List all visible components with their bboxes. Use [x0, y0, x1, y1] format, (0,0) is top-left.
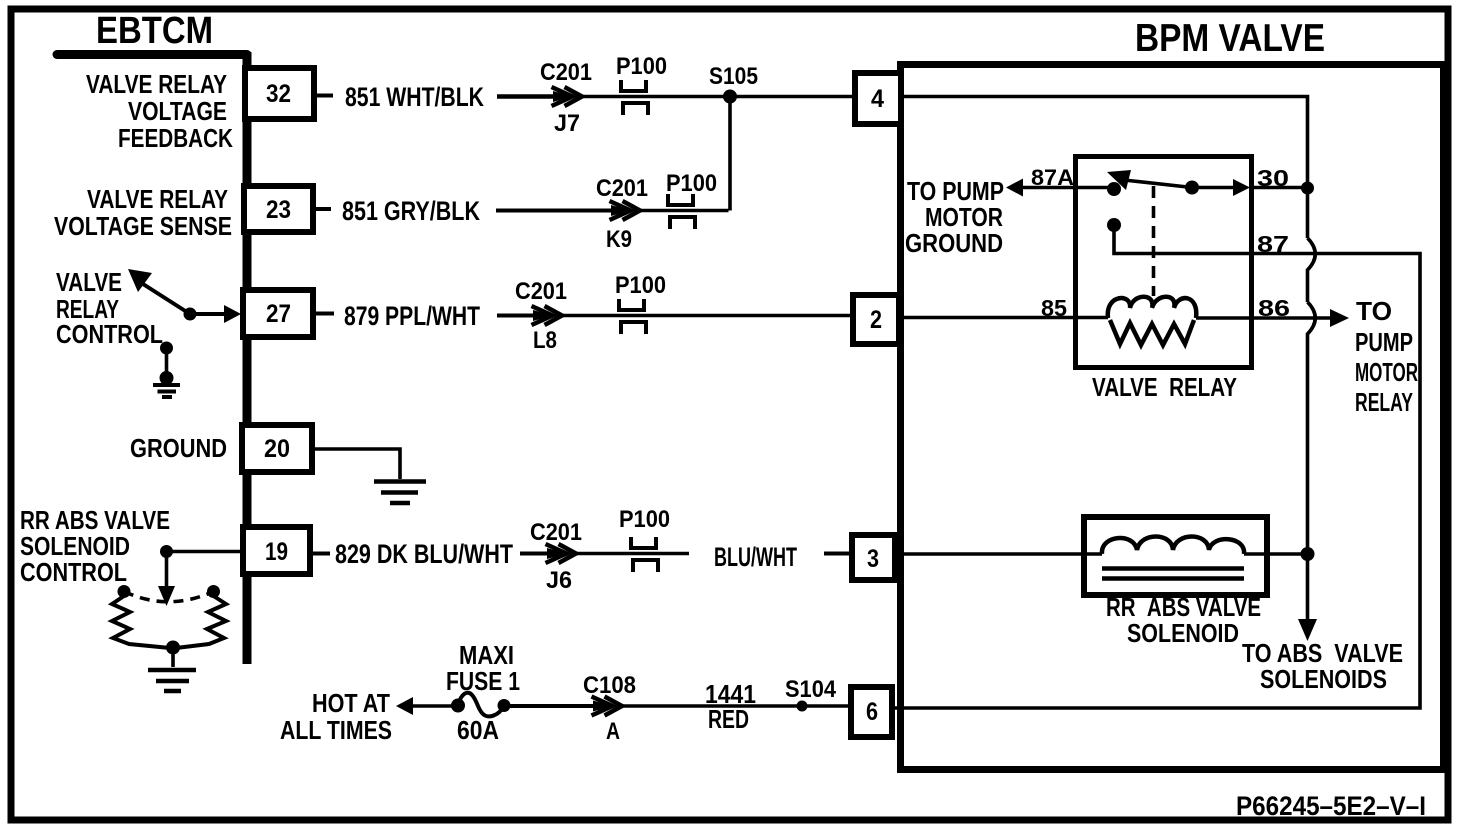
- svg-text:CONTROL: CONTROL: [56, 319, 163, 349]
- svg-text:829 DK BLU/WHT: 829 DK BLU/WHT: [335, 539, 513, 569]
- svg-text:4: 4: [871, 85, 884, 113]
- svg-text:VOLTAGE: VOLTAGE: [128, 96, 227, 126]
- svg-text:GROUND: GROUND: [130, 433, 227, 463]
- connector P100 (row 32): [621, 80, 648, 115]
- svg-text:C201: C201: [596, 175, 648, 202]
- wire 1441 RED to pin 6: [620, 704, 851, 707]
- vertical feed wire with hops: [1308, 188, 1316, 620]
- wire 829 DK BLU/WHT from C201: [574, 552, 689, 555]
- wire 851 WHT/BLK from C201 to pin 4: [580, 95, 852, 98]
- connector C201 J7 (row 32): [552, 87, 583, 106]
- ground (solenoid control): [148, 670, 196, 691]
- EBTCM module boundary: [57, 52, 247, 664]
- fuse MAXI FUSE 1 60A: [451, 693, 511, 717]
- svg-text:851 GRY/BLK: 851 GRY/BLK: [342, 196, 480, 226]
- splice S105: [723, 90, 737, 104]
- relay switch blade: [1124, 180, 1192, 188]
- svg-text:TO: TO: [1356, 296, 1392, 326]
- svg-text:K9: K9: [606, 226, 632, 253]
- relay coil link (dashed): [1152, 186, 1156, 296]
- wire 87A: [1021, 186, 1073, 190]
- wire stub from pin 23: [316, 207, 331, 211]
- arrow hot feed: [396, 697, 413, 715]
- relay contact 87 terminal: [1107, 218, 1121, 232]
- svg-text:P100: P100: [616, 53, 667, 80]
- svg-text:C201: C201: [540, 59, 592, 86]
- svg-text:BLU/WHT: BLU/WHT: [714, 542, 797, 572]
- wire from pin 19 line to solenoid control node: [167, 550, 248, 554]
- RR ABS valve solenoid box: [1084, 517, 1267, 595]
- svg-text:C201: C201: [515, 278, 567, 305]
- svg-text:CONTROL: CONTROL: [20, 557, 127, 587]
- connector P100 (row 19): [631, 537, 658, 572]
- valve relay box: [1076, 157, 1252, 368]
- svg-text:SOLENOIDS: SOLENOIDS: [1260, 664, 1387, 694]
- connector P100 (row 23): [668, 194, 695, 229]
- svg-text:J7: J7: [554, 110, 580, 137]
- svg-text:19: 19: [265, 538, 288, 566]
- relay contact 30 wire: [1192, 186, 1236, 190]
- pin 2: [853, 295, 899, 344]
- pin 3: [852, 535, 895, 580]
- svg-text:MOTOR: MOTOR: [1355, 357, 1418, 387]
- label HOT AT ALL TIMES: [280, 688, 392, 745]
- svg-text:L8: L8: [533, 327, 557, 354]
- ground (pin 20): [374, 482, 426, 504]
- relay coil: [1108, 297, 1197, 345]
- ground (valve relay control): [153, 385, 180, 397]
- svg-text:S104: S104: [785, 676, 837, 703]
- svg-text:P100: P100: [666, 170, 717, 197]
- svg-text:VOLTAGE SENSE: VOLTAGE SENSE: [54, 211, 232, 241]
- label TO ABS VALVE SOLENOIDS: [1242, 638, 1403, 694]
- label VALVE RELAY VOLTAGE SENSE (pin 23): [54, 184, 232, 241]
- svg-text:P66245–5E2–V–I: P66245–5E2–V–I: [1236, 791, 1426, 821]
- connector C201 L8 (row 27): [532, 306, 563, 325]
- arrow to ABS valve solenoids: [1298, 619, 1317, 641]
- svg-text:HOT AT: HOT AT: [312, 688, 390, 718]
- svg-text:VALVE RELAY: VALVE RELAY: [1092, 372, 1237, 402]
- wire 829 DK BLU/WHT to C201: [520, 552, 550, 556]
- label VALVE RELAY VOLTAGE FEEDBACK (pin 32): [86, 69, 233, 153]
- svg-text:851 WHT/BLK: 851 WHT/BLK: [345, 82, 484, 112]
- svg-text:879 PPL/WHT: 879 PPL/WHT: [344, 301, 480, 331]
- wire fuse to C108: [504, 704, 596, 708]
- svg-text:C201: C201: [530, 519, 582, 546]
- svg-text:VALVE: VALVE: [56, 267, 122, 297]
- svg-text:60A: 60A: [457, 715, 499, 745]
- wire relay 30 to junction: [1250, 186, 1308, 190]
- wire stub from pin 19: [313, 552, 330, 556]
- wire pin 2 to relay coil 85: [902, 316, 1108, 320]
- pin 32: [245, 68, 314, 119]
- arrow to pump motor ground (87A): [1006, 179, 1023, 197]
- node solenoid control: [160, 545, 173, 558]
- arrow down to valve symbol: [165, 552, 169, 589]
- wire 851 WHT/BLK to C201: [497, 94, 556, 99]
- RR ABS valve solenoid symbol (EBTCM side): [112, 585, 226, 667]
- svg-text:RED: RED: [708, 704, 749, 734]
- svg-text:SOLENOID: SOLENOID: [1127, 618, 1239, 648]
- svg-text:GROUND: GROUND: [905, 228, 1003, 258]
- pin 4: [855, 73, 901, 124]
- connector P100 (row 27): [619, 299, 646, 334]
- svg-text:23: 23: [266, 196, 291, 224]
- splice S104: [797, 701, 808, 712]
- label TO PUMP MOTOR RELAY: [1355, 296, 1418, 417]
- wire stub to pin 3: [824, 552, 849, 556]
- node 30 junction: [1301, 182, 1314, 195]
- pin 20: [242, 425, 312, 472]
- svg-text:BPM VALVE: BPM VALVE: [1135, 17, 1325, 60]
- svg-text:3: 3: [867, 545, 879, 573]
- wire pin 4 to vertical feed: [904, 97, 1308, 183]
- node below switch: [160, 342, 173, 355]
- connector C201 K9 (row 23): [610, 201, 641, 220]
- svg-text:ALL TIMES: ALL TIMES: [280, 715, 392, 745]
- wire hot feed to fuse: [411, 704, 458, 708]
- svg-text:P100: P100: [619, 506, 670, 533]
- wire stub from pin 32: [317, 94, 333, 98]
- wire solenoid to junction: [1244, 552, 1308, 556]
- svg-text:87: 87: [1257, 231, 1289, 257]
- svg-text:85: 85: [1041, 295, 1067, 321]
- label VALVE RELAY CONTROL (pin 27): [56, 267, 163, 349]
- wire 851 GRY/BLK to C201: [496, 209, 614, 213]
- connector C201 J6 (row 19): [546, 544, 577, 563]
- svg-text:J6: J6: [546, 567, 572, 594]
- pin 23: [244, 186, 313, 232]
- connector C108 A: [592, 697, 623, 716]
- svg-text:RELAY: RELAY: [1355, 387, 1413, 417]
- svg-text:FEEDBACK: FEEDBACK: [118, 123, 233, 153]
- svg-text:FUSE 1: FUSE 1: [446, 666, 520, 696]
- wire 879 PPL/WHT to C201: [497, 314, 536, 318]
- wire 879 PPL/WHT from C201 to pin 2: [560, 314, 852, 317]
- wire stub from pin 27: [316, 312, 334, 316]
- svg-text:A: A: [606, 718, 620, 745]
- svg-text:32: 32: [266, 80, 291, 108]
- RR ABS valve solenoid coil: [1102, 537, 1244, 579]
- svg-text:C108: C108: [583, 672, 636, 699]
- label TO PUMP MOTOR GROUND: [905, 176, 1004, 258]
- svg-text:VALVE RELAY: VALVE RELAY: [86, 69, 227, 99]
- svg-text:P100: P100: [615, 272, 666, 299]
- wire pin 3 to solenoid: [898, 552, 1102, 556]
- svg-text:PUMP: PUMP: [1355, 327, 1413, 357]
- wire S105 down to 851 GRY/BLK: [728, 97, 732, 211]
- switch valve relay control: [128, 269, 241, 323]
- pin 19: [243, 527, 310, 574]
- svg-text:S105: S105: [709, 63, 758, 90]
- wire 851 GRY/BLK from C201 up to S105: [638, 209, 729, 212]
- wire ground from pin 20: [315, 449, 400, 479]
- pin 6: [851, 687, 892, 737]
- svg-text:6: 6: [866, 698, 878, 726]
- node solenoid junction: [1301, 547, 1315, 561]
- svg-text:EBTCM: EBTCM: [96, 10, 213, 52]
- label RR ABS VALVE SOLENOID CONTROL (pin 19): [20, 505, 170, 587]
- BPM VALVE module box: [901, 65, 1444, 770]
- pin 27: [243, 290, 313, 337]
- svg-text:VALVE RELAY: VALVE RELAY: [87, 184, 228, 214]
- svg-text:20: 20: [264, 435, 290, 463]
- svg-text:2: 2: [870, 306, 882, 334]
- wire relay 86 to pump motor relay: [1196, 316, 1332, 320]
- relay contact 87A terminal: [1073, 186, 1110, 190]
- label RR ABS VALVE SOLENOID: [1106, 592, 1261, 648]
- svg-text:27: 27: [266, 300, 291, 328]
- svg-text:87A: 87A: [1031, 165, 1074, 190]
- wire to lower node: [165, 348, 169, 378]
